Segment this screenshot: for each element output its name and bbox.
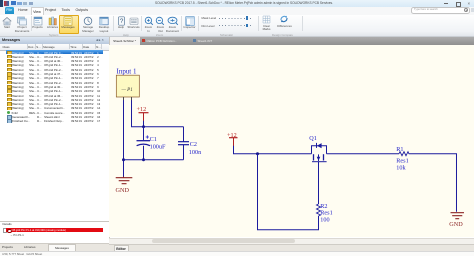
svg-text:100: 100 bbox=[320, 216, 329, 223]
wire pin2 to +12 rail bbox=[132, 100, 184, 126]
wire junction down and along bottom to R2 bbox=[258, 153, 319, 229]
Project Documents bbox=[17, 16, 27, 26]
rows bbox=[6, 50, 104, 54]
wire C2 to bottom rail bbox=[183, 144, 185, 159]
connector P1 (Input 1) bbox=[116, 67, 139, 97]
node junction at +12/C1 bbox=[142, 125, 145, 128]
power port +12 (left) bbox=[137, 106, 149, 121]
ground GND (right) bbox=[449, 212, 464, 227]
wire bottom rail bbox=[124, 158, 184, 160]
svg-text:Input 1: Input 1 bbox=[117, 67, 137, 75]
Zoom In bbox=[144, 16, 154, 26]
capacitor C2 100n bbox=[178, 141, 201, 156]
svg-text:GND: GND bbox=[116, 187, 130, 194]
pin 2 of P1 bbox=[131, 97, 133, 101]
Projects bbox=[33, 16, 43, 26]
Zoom Document bbox=[167, 16, 179, 26]
column header bbox=[0, 44, 109, 51]
node junction at GND rail left bbox=[122, 158, 125, 161]
wire Q1 gate to R2 bbox=[317, 161, 319, 203]
wire Q1 drain to R1 bbox=[326, 152, 398, 154]
transistor Q1 (MOSFET with body diode) bbox=[309, 135, 326, 162]
svg-text:C1: C1 bbox=[150, 136, 157, 143]
panel background bbox=[0, 37, 110, 251]
Libraries bbox=[48, 16, 58, 26]
resistor R2 Res1 100 bbox=[316, 203, 332, 223]
svg-text:C2: C2 bbox=[190, 141, 197, 148]
svg-text:GND: GND bbox=[449, 221, 463, 228]
details section bbox=[0, 220, 109, 223]
svg-text:Res1: Res1 bbox=[396, 157, 408, 164]
Desktop Layout bbox=[99, 16, 109, 26]
ground GND (left) bbox=[116, 176, 133, 194]
Mask/Dim sliders bbox=[202, 16, 217, 20]
svg-text:?: ? bbox=[119, 18, 123, 25]
Start bbox=[2, 16, 12, 26]
svg-text:— P1: — P1 bbox=[121, 88, 133, 93]
node junction below C1 bbox=[142, 158, 145, 161]
wire pin1 to GND node bbox=[123, 100, 125, 177]
Zoom Out bbox=[155, 16, 165, 26]
svg-text:100uF: 100uF bbox=[150, 143, 166, 150]
svg-text:Q1: Q1 bbox=[309, 135, 317, 142]
group labels bbox=[49, 33, 58, 37]
node junction on +12 rail bbox=[256, 152, 259, 155]
Inspector bbox=[185, 16, 195, 26]
Differences bbox=[279, 14, 289, 24]
Shortcuts bbox=[129, 16, 139, 26]
wire junction to C1 bbox=[143, 126, 145, 139]
svg-text:+12: +12 bbox=[137, 106, 147, 113]
Help bbox=[117, 16, 126, 26]
capacitor C1 100uF bbox=[137, 135, 166, 150]
Messages (highlighted) bbox=[59, 15, 79, 34]
wire top rail to C2 bbox=[183, 126, 185, 141]
svg-text:R1: R1 bbox=[396, 146, 403, 153]
window buttons bbox=[444, 2, 448, 5]
search box bbox=[411, 7, 470, 14]
wire C1 to bottom rail bbox=[143, 145, 145, 159]
panel header bbox=[0, 37, 109, 45]
Storage Manager bbox=[83, 16, 93, 26]
svg-text:Res1: Res1 bbox=[320, 209, 332, 216]
svg-text:100n: 100n bbox=[189, 149, 201, 156]
resistor R1 Res1 10k bbox=[396, 146, 408, 172]
bottom tabs bbox=[0, 243, 109, 251]
power port +12 (right) bbox=[227, 132, 237, 146]
wire +12 to Q1 source bbox=[234, 145, 312, 153]
wire R1 to right GND bbox=[409, 153, 457, 211]
Clear Marks bbox=[262, 15, 271, 24]
pin 1 of P1 bbox=[123, 97, 125, 101]
wire +12 stem to junction bbox=[143, 120, 145, 126]
svg-text:10k: 10k bbox=[396, 164, 406, 171]
